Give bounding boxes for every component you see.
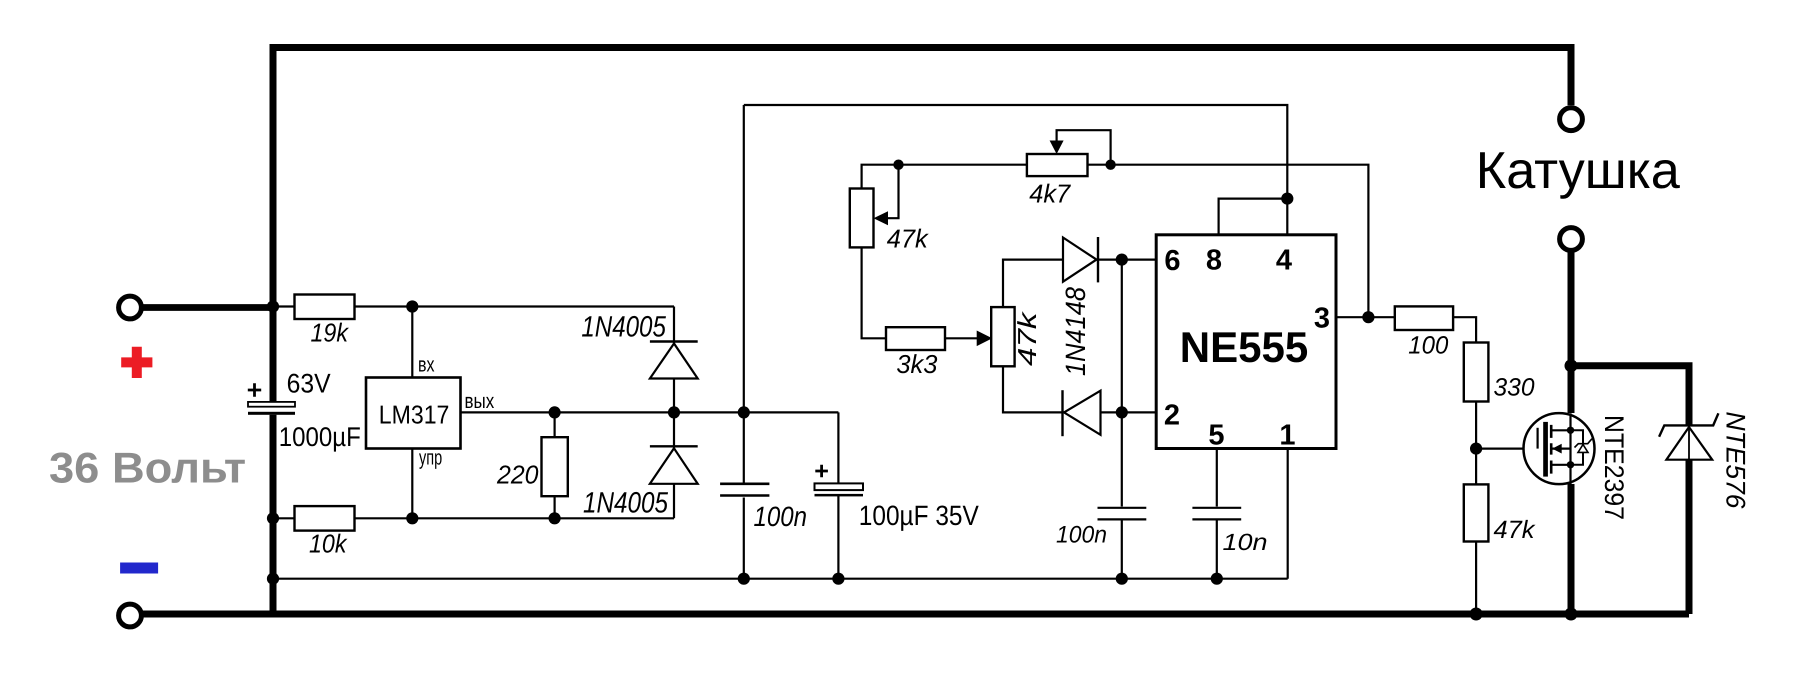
svg-text:4k7: 4k7 xyxy=(1029,179,1072,209)
diode D1 1N4005 xyxy=(581,310,697,378)
wire bottom thick rail xyxy=(141,611,1689,618)
svg-text:1N4005: 1N4005 xyxy=(581,310,666,343)
svg-text:330: 330 xyxy=(1494,374,1535,402)
wire pin8 jumper xyxy=(1219,199,1288,235)
capacitor C2 100n xyxy=(720,484,807,532)
diode D5 NTE576 xyxy=(1659,412,1750,510)
node 19k input junction xyxy=(267,300,279,312)
terminal plus input xyxy=(119,296,142,319)
svg-text:220: 220 xyxy=(496,460,539,490)
terminal minus input xyxy=(119,604,142,627)
wire pin3 output to 100 xyxy=(1336,316,1395,318)
capacitor C1 1000uF 63V electrolytic xyxy=(248,369,361,453)
resistor R3 220 xyxy=(542,437,568,496)
wire top supply rail xyxy=(273,48,1571,307)
wire 100uF branch xyxy=(837,412,839,578)
svg-text:10n: 10n xyxy=(1223,529,1268,555)
wire 10k adj line xyxy=(273,517,674,519)
svg-text:2: 2 xyxy=(1164,400,1180,432)
wire diode D2 branch vertical xyxy=(673,412,675,518)
resistor R5 100 xyxy=(1395,306,1453,359)
wire left vertical supply to bottom rail xyxy=(270,307,277,615)
node ground C3 junction xyxy=(832,573,844,585)
wire pot P1 wiper tap xyxy=(887,165,899,219)
wire thick branch to NTE576 xyxy=(1571,366,1689,426)
terminal coil top xyxy=(1560,108,1583,131)
node adj left junction xyxy=(267,512,279,524)
label plus symbol xyxy=(121,347,152,378)
svg-text:100n: 100n xyxy=(754,501,808,532)
regulator U1 LM317 xyxy=(366,378,461,449)
node 220 top junction xyxy=(549,406,561,418)
wire LM317 adjust stub xyxy=(411,449,413,519)
wire timing top line pots to pin3 drop xyxy=(862,165,1369,318)
potentiometer P2 47k vertical xyxy=(991,307,1042,366)
svg-text:19k: 19k xyxy=(311,318,350,348)
wire pot P1 bottom to 3k3 xyxy=(862,247,886,338)
node ground C4 junction xyxy=(1116,573,1128,585)
svg-text:10k: 10k xyxy=(309,528,348,558)
svg-text:1000µF: 1000µF xyxy=(279,422,361,452)
wire pin1 stub xyxy=(1287,449,1289,579)
wire pot P2 wiper arrow xyxy=(977,331,991,345)
wire Vcc top line to pin4 xyxy=(744,105,1288,235)
svg-text:100n: 100n xyxy=(1056,522,1107,549)
node pot P1 wiper junction xyxy=(893,160,903,170)
svg-text:47k: 47k xyxy=(887,223,930,253)
resistor R6 330 xyxy=(1464,343,1535,402)
svg-text:NTE2397: NTE2397 xyxy=(1599,415,1629,520)
node pin4 jumper junction xyxy=(1281,193,1293,205)
potentiometer P3 4k7 xyxy=(1027,141,1088,209)
wire mosfet source to bottom rail xyxy=(1568,484,1575,614)
resistor R4 3k3 xyxy=(886,327,945,379)
wire gate lead xyxy=(1476,428,1538,449)
node source rail junction xyxy=(1565,608,1578,621)
svg-text:NTE576: NTE576 xyxy=(1721,412,1751,510)
capacitor C4 100n xyxy=(1056,508,1146,549)
svg-text:6: 6 xyxy=(1164,245,1180,277)
node ground C2 junction xyxy=(738,573,750,585)
node junction dots xyxy=(267,160,1578,621)
svg-text:36 Вольт: 36 Вольт xyxy=(49,444,246,492)
diode D4 1N4148 xyxy=(1063,390,1101,436)
resistor R2 10k xyxy=(295,506,355,530)
node 47k rail junction xyxy=(1470,608,1483,621)
node pin2 junction xyxy=(1116,406,1128,418)
wire 100 to 330 xyxy=(1453,317,1476,342)
svg-text:1N4005: 1N4005 xyxy=(583,487,668,520)
wire LM317 output line xyxy=(461,411,839,413)
wire pins 2-6 tie vertical through 100n xyxy=(1121,260,1123,579)
wire LM317 input stub xyxy=(411,307,413,378)
svg-text:8: 8 xyxy=(1206,245,1222,277)
resistor R1 19k xyxy=(295,295,355,320)
node Vcc output junction xyxy=(738,406,750,418)
node ground left junction xyxy=(267,573,279,585)
node pin6 junction xyxy=(1116,254,1128,266)
wire Vcc vertical through 100n xyxy=(743,105,745,579)
wire 3k3 to pot P2 wiper xyxy=(945,337,978,339)
svg-text:100µF 35V: 100µF 35V xyxy=(859,500,979,531)
svg-text:100: 100 xyxy=(1408,331,1448,359)
label minus symbol xyxy=(120,563,158,574)
wire 47k to bottom rail xyxy=(1475,542,1477,615)
diode D2 1N4005 xyxy=(583,446,698,519)
svg-text:LM317: LM317 xyxy=(379,400,450,430)
wire plus input lead xyxy=(141,304,273,311)
svg-text:NE555: NE555 xyxy=(1180,324,1309,372)
node pin3 junction xyxy=(1362,311,1374,323)
node LM317 in junction xyxy=(406,300,418,312)
svg-text:47k: 47k xyxy=(1012,310,1042,366)
wire pot P2 top to diode D3 xyxy=(1003,260,1156,308)
potentiometer P1 47k xyxy=(850,189,930,254)
wire ground return thin xyxy=(273,578,1288,580)
wire diode D1 branch vertical xyxy=(673,307,675,413)
wire 19k input line xyxy=(273,305,674,307)
timer U2 NE555 xyxy=(1156,235,1336,449)
capacitor C5 10n xyxy=(1192,508,1267,555)
svg-text:1N4148: 1N4148 xyxy=(1060,287,1091,376)
node drain branch junction xyxy=(1565,359,1578,372)
node LM317 adj junction xyxy=(406,512,418,524)
node ground C5 junction xyxy=(1211,573,1223,585)
wire NTE576 anode to bottom rail xyxy=(1686,460,1693,614)
capacitor C3 100uF 35V electrolytic xyxy=(815,465,980,531)
svg-text:3k3: 3k3 xyxy=(896,349,938,379)
wire 330 to gate node xyxy=(1475,402,1477,485)
svg-text:5: 5 xyxy=(1208,420,1224,452)
wire coil lower terminal to mosfet drain xyxy=(1568,250,1575,413)
svg-text:упр: упр xyxy=(419,447,442,470)
wire pot P2 bottom to diode D4 xyxy=(1003,366,1156,412)
resistor R7 47k xyxy=(1464,484,1536,544)
diode D3 1N4148 xyxy=(1060,237,1098,376)
transistor Q1 NTE2397 mosfet xyxy=(1524,413,1630,520)
terminal coil bottom xyxy=(1560,228,1583,251)
svg-text:47k: 47k xyxy=(1494,516,1537,544)
svg-text:3: 3 xyxy=(1314,303,1330,335)
svg-text:вых: вых xyxy=(465,390,495,413)
svg-text:вх: вх xyxy=(418,354,435,377)
wire pin5 stub through 10n xyxy=(1216,449,1218,579)
svg-text:1: 1 xyxy=(1279,420,1295,452)
svg-text:63V: 63V xyxy=(287,369,331,399)
node gate junction xyxy=(1470,443,1482,455)
node 4k7 wiper junction xyxy=(1105,160,1115,170)
node D1 D2 output junction xyxy=(668,406,680,418)
node 220 bottom junction xyxy=(549,512,561,524)
svg-text:4: 4 xyxy=(1276,245,1292,277)
svg-text:Катушка: Катушка xyxy=(1476,142,1680,200)
wire 4k7 wiper link xyxy=(1057,130,1111,165)
wire 220 resistor stubs xyxy=(553,412,555,518)
